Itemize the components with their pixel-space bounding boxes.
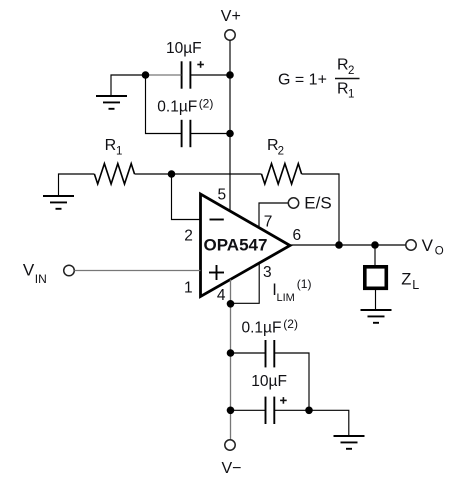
svg-text:10µF: 10µF <box>251 373 287 390</box>
svg-text:V+: V+ <box>221 8 241 25</box>
svg-text:(2): (2) <box>283 317 298 331</box>
svg-text:7: 7 <box>264 214 273 231</box>
terminal V- <box>225 440 235 450</box>
junction dot pin4/ILIM <box>227 300 235 308</box>
svg-text:R: R <box>337 81 349 98</box>
svg-text:(2): (2) <box>199 96 214 110</box>
wire to top-left ground <box>111 75 146 96</box>
svg-text:0.1µF: 0.1µF <box>242 320 282 337</box>
load ZL box <box>365 267 387 289</box>
svg-text:1: 1 <box>184 280 193 297</box>
C1 plus polarity mark <box>197 61 204 68</box>
wire C2 left <box>146 75 182 134</box>
svg-text:(1): (1) <box>297 277 312 291</box>
terminal V+ <box>225 30 235 40</box>
svg-text:R: R <box>105 137 117 154</box>
svg-text:Z: Z <box>401 271 411 289</box>
resistor R2 zigzag <box>262 164 302 184</box>
svg-text:LIM: LIM <box>277 292 295 304</box>
capacitor C3 0.1uF plates <box>266 340 275 367</box>
svg-text:2: 2 <box>184 227 193 244</box>
wire feedback node horizontal <box>135 173 262 175</box>
minus symbol inverting input <box>210 219 224 221</box>
wire C2 right <box>190 133 230 135</box>
svg-text:E/S: E/S <box>304 194 331 213</box>
svg-text:G = 1+: G = 1+ <box>278 72 327 89</box>
junction dot C2 right <box>226 130 234 138</box>
svg-text:4: 4 <box>217 287 226 304</box>
svg-text:O: O <box>435 246 444 258</box>
wire pin 3 ILIM <box>231 263 260 303</box>
wire ZL to ground <box>375 290 377 310</box>
wire R2 right to output <box>302 174 339 245</box>
capacitor C4 10uF plates <box>266 397 275 424</box>
svg-text:R: R <box>337 57 349 74</box>
svg-text:10µF: 10µF <box>166 40 202 57</box>
svg-text:2: 2 <box>348 65 354 77</box>
wire ZL drop <box>374 245 376 266</box>
wire VIN to pin 1 <box>74 270 200 272</box>
svg-text:L: L <box>412 278 419 292</box>
svg-text:V: V <box>422 236 434 255</box>
svg-text:5: 5 <box>218 187 227 204</box>
wire to bottom-right ground <box>309 410 349 435</box>
wire to inverting input pin 2 <box>172 174 201 220</box>
capacitor C1 10uF plates <box>182 61 191 88</box>
ground bottom-right <box>334 436 365 449</box>
wire C3 left <box>231 352 266 354</box>
capacitor C2 0.1uF plates <box>182 120 191 147</box>
wire output pin 6 <box>290 244 406 246</box>
junction dot C3 left <box>227 349 235 357</box>
junction dot C4 right <box>305 407 313 415</box>
wire V+ rail <box>229 40 231 211</box>
svg-text:IN: IN <box>35 272 47 286</box>
svg-text:OPA547: OPA547 <box>204 236 268 255</box>
junction dot C1 left <box>142 71 150 79</box>
wire R1 left + ground drop <box>59 174 95 196</box>
wire C4 left <box>231 409 266 411</box>
resistor R1 zigzag <box>94 164 134 184</box>
ground top-left <box>96 96 127 109</box>
ground at R1 <box>43 196 74 209</box>
op-amp U1 triangle <box>201 194 291 297</box>
terminal E/S <box>288 198 298 208</box>
wire V- rail pin 4 <box>230 280 232 441</box>
junction dot feedback node <box>168 170 176 178</box>
junction dot C4 left <box>227 407 235 415</box>
junction dot C1 right <box>226 71 234 79</box>
svg-text:0.1µF: 0.1µF <box>157 99 197 116</box>
terminal VO <box>406 240 416 250</box>
svg-text:V: V <box>23 261 35 280</box>
wire C4 right <box>274 409 309 411</box>
plus symbol non-inverting input <box>209 265 224 280</box>
svg-text:6: 6 <box>293 227 302 244</box>
wire C1 left <box>146 74 182 76</box>
C4 plus polarity mark <box>280 397 287 404</box>
terminal VIN <box>64 265 75 276</box>
svg-text:1: 1 <box>116 146 122 158</box>
svg-text:3: 3 <box>263 264 272 281</box>
wire C3 right <box>274 353 309 410</box>
svg-text:1: 1 <box>348 89 354 101</box>
wire C1 right <box>190 74 230 76</box>
junction dot output R2 <box>335 241 343 249</box>
junction dot output ZL <box>371 241 379 249</box>
svg-text:2: 2 <box>278 146 284 158</box>
svg-text:V−: V− <box>222 460 242 477</box>
ground under ZL <box>361 310 392 323</box>
wire E/S pin 7 stub <box>259 203 288 228</box>
